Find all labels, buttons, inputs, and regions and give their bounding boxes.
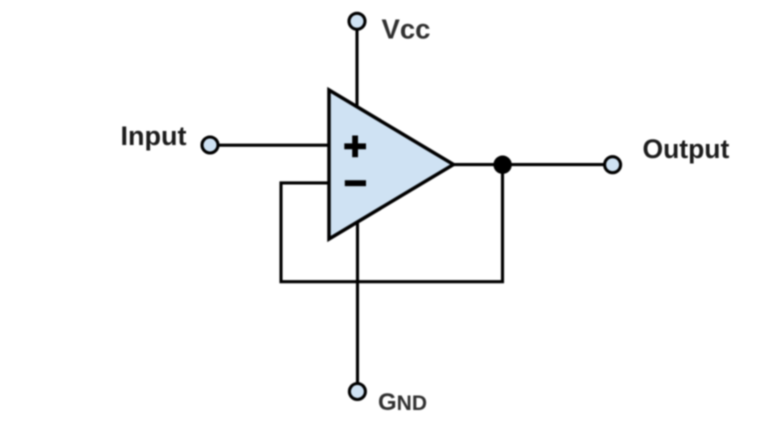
svg-text:Input: Input <box>121 121 187 151</box>
svg-text:Vcc: Vcc <box>382 13 431 44</box>
svg-text:Output: Output <box>643 134 730 164</box>
svg-text:GND: GND <box>378 389 427 416</box>
